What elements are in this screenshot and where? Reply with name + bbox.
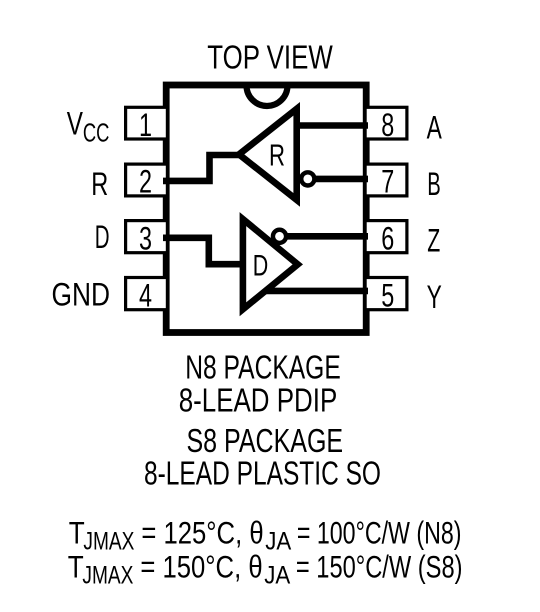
svg-text:R: R [91, 166, 108, 202]
svg-text:7: 7 [381, 164, 394, 200]
svg-text:2: 2 [139, 164, 152, 200]
svg-text:Z: Z [427, 223, 440, 259]
svg-text:3: 3 [139, 220, 152, 256]
svg-text:B: B [427, 166, 441, 202]
svg-text:R: R [269, 137, 285, 172]
svg-text:N8 PACKAGE: N8 PACKAGE [185, 349, 341, 386]
svg-text:4: 4 [139, 277, 152, 313]
svg-text:5: 5 [381, 277, 394, 313]
svg-text:6: 6 [381, 220, 394, 256]
svg-text:A: A [427, 110, 443, 146]
svg-text:1: 1 [139, 107, 152, 143]
svg-text:D: D [253, 250, 269, 283]
svg-text:D: D [95, 219, 110, 255]
svg-text:GND: GND [52, 276, 111, 312]
svg-text:TOP VIEW: TOP VIEW [207, 39, 333, 76]
svg-text:Y: Y [427, 279, 442, 315]
svg-text:8-LEAD PDIP: 8-LEAD PDIP [179, 381, 338, 418]
svg-text:8: 8 [381, 107, 394, 143]
svg-text:8-LEAD PLASTIC SO: 8-LEAD PLASTIC SO [144, 454, 381, 491]
